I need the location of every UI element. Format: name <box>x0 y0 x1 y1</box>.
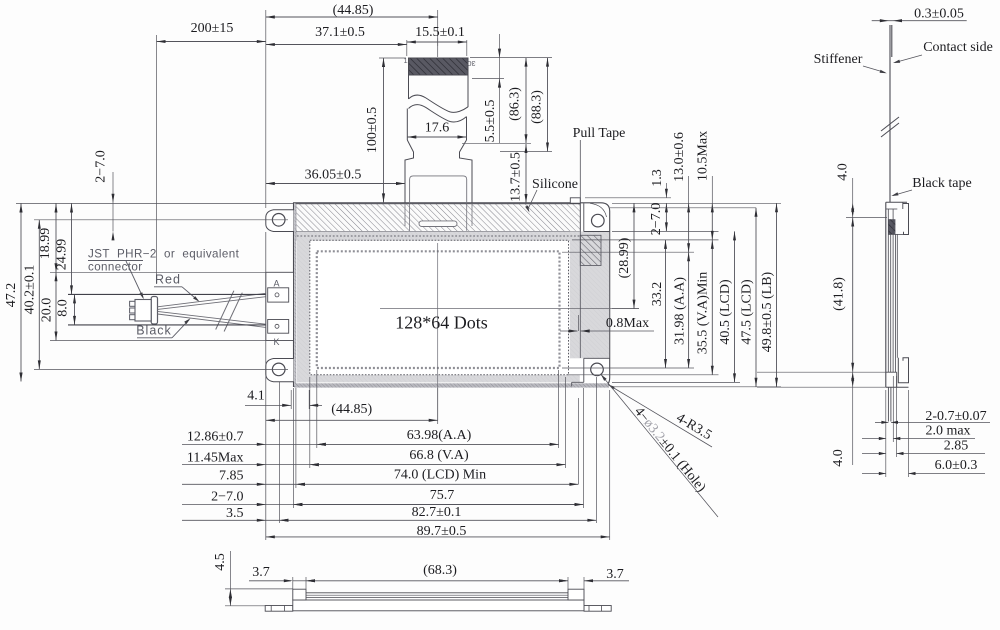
pull tape tab above top edge <box>570 198 580 203</box>
svg-text:(44.85): (44.85) <box>333 3 374 18</box>
ext module top edge to left <box>16 202 293 204</box>
bottom PCB edge hatched strip <box>294 383 609 387</box>
svg-text:10.5Max: 10.5Max <box>696 131 711 181</box>
svg-text:74.0 (LCD) Min: 74.0 (LCD) Min <box>394 468 486 483</box>
ext line PCB left edge (top) <box>265 10 267 208</box>
svg-text:(44.85): (44.85) <box>331 402 372 417</box>
svg-text:31.98 (A.A): 31.98 (A.A) <box>673 277 688 345</box>
svg-text:Silicone: Silicone <box>532 177 578 192</box>
ext LCD bottom right <box>612 381 740 383</box>
svg-text:K: K <box>273 337 279 347</box>
ext VA left (bottom) <box>309 377 311 468</box>
svg-text:(28.99): (28.99) <box>617 237 632 278</box>
side FPC tail below <box>887 387 889 421</box>
svg-text:18.99: 18.99 <box>38 228 53 260</box>
side glass stack lines <box>887 209 889 372</box>
ext tab A / K centers <box>68 293 266 295</box>
display centerline vertical <box>437 243 439 420</box>
mounting ear top-left <box>266 210 294 232</box>
svg-text:0.8Max: 0.8Max <box>606 316 649 331</box>
svg-text:13.7±0.5: 13.7±0.5 <box>509 152 524 202</box>
bottom view right cap <box>568 589 584 600</box>
svg-text:Black tape: Black tape <box>912 176 971 191</box>
display centerline horizontal <box>380 308 639 310</box>
side hatched tape block <box>888 219 895 234</box>
svg-text:8.0: 8.0 <box>56 299 71 317</box>
svg-text:2.85: 2.85 <box>944 439 969 454</box>
ext PCB right (bottom) <box>609 390 611 540</box>
ext FPC conn corners <box>406 40 408 56</box>
svg-text:35.5 (V.A)Min: 35.5 (V.A)Min <box>696 272 711 355</box>
svg-text:A: A <box>273 279 279 289</box>
notch bottom-right <box>572 382 584 386</box>
svg-text:3.7: 3.7 <box>252 565 270 580</box>
FPC connector end (stiffener) <box>409 58 469 75</box>
svg-text:47.2: 47.2 <box>4 283 19 308</box>
svg-text:24.99: 24.99 <box>55 239 70 271</box>
side FPC break symbol <box>881 117 899 131</box>
svg-text:17.6: 17.6 <box>425 121 450 136</box>
svg-text:JST PHR−2 or equivalent: JST PHR−2 or equivalent <box>88 248 240 261</box>
svg-text:4.1: 4.1 <box>247 389 265 404</box>
mounting hole top-right <box>592 214 605 227</box>
svg-text:6.0±0.3: 6.0±0.3 <box>935 458 978 473</box>
svg-text:49.8±0.5 (LB): 49.8±0.5 (LB) <box>760 271 775 352</box>
ext AA left (bottom) <box>316 370 318 448</box>
bottom view ext stubs <box>292 577 294 589</box>
svg-text:66.8 (V.A): 66.8 (V.A) <box>409 448 469 463</box>
pull tape hatched square <box>580 235 601 265</box>
svg-text:3.7: 3.7 <box>606 567 624 582</box>
bezel opening / V.A. dotted border <box>310 240 569 374</box>
ext silicone bottom right <box>612 230 719 232</box>
svg-text:40.5 (LCD): 40.5 (LCD) <box>718 279 733 345</box>
bottom view glass lines <box>306 592 568 594</box>
svg-text:20.0: 20.0 <box>40 298 55 323</box>
svg-text:(68.3): (68.3) <box>423 563 457 578</box>
svg-text:Black: Black <box>136 324 172 338</box>
svg-text:connector: connector <box>88 261 143 274</box>
side bottom ext verticals <box>885 390 887 477</box>
ext pull tape top <box>585 197 671 199</box>
side view module profile <box>885 202 887 387</box>
mounting hole top-left <box>272 214 285 227</box>
metal bezel top band <box>297 232 581 241</box>
ext module bottom right <box>612 386 781 388</box>
svg-text:7.85: 7.85 <box>219 468 244 483</box>
svg-text:4.0: 4.0 <box>836 163 851 181</box>
svg-text:12.86±0.7: 12.86±0.7 <box>187 429 244 444</box>
metal bezel bottom band <box>297 375 580 383</box>
svg-text:1: 1 <box>404 56 408 65</box>
A.A. dotted border <box>317 251 560 368</box>
svg-text:37.1±0.5: 37.1±0.5 <box>315 25 365 40</box>
ext 75.7 right (bottom) <box>583 388 585 508</box>
FPC body lower sides <box>406 109 408 141</box>
svg-text:30: 30 <box>467 59 475 68</box>
connector teeth <box>130 301 135 306</box>
ext hole center right (bottom) <box>595 377 597 523</box>
FPC wavy break <box>409 95 469 112</box>
ext LCD left (bottom) <box>295 388 297 488</box>
svg-text:75.7: 75.7 <box>430 488 455 503</box>
metal bezel left band <box>297 236 310 375</box>
bezel outer edge dotted line <box>297 235 581 237</box>
mounting ear bottom-left <box>266 359 294 382</box>
svg-text:100±0.5: 100±0.5 <box>365 107 380 153</box>
FPC lines inside silicone strip <box>409 204 411 231</box>
svg-text:4.0: 4.0 <box>831 449 846 467</box>
ext tab block top/bottom <box>50 271 266 273</box>
ext hole centers left <box>34 219 288 221</box>
tab K <box>268 320 289 334</box>
PCB gray band right of display <box>570 232 609 359</box>
bottom view left cap <box>293 589 306 600</box>
corner fillet line top-right <box>590 203 607 217</box>
bottom view main slab <box>293 600 584 611</box>
svg-text:(41.8): (41.8) <box>832 277 847 311</box>
side bottom flange <box>898 358 908 383</box>
LCD module PCB outline (front view) <box>294 203 610 387</box>
ext FPC center (bottom) <box>437 388 439 424</box>
wire black (to tab K) <box>158 311 266 324</box>
ext FPC centerline top <box>437 10 439 57</box>
svg-text:(88.3): (88.3) <box>530 90 545 124</box>
bottom view right flange <box>584 606 611 612</box>
tab A <box>268 288 289 302</box>
svg-text:63.98(A.A): 63.98(A.A) <box>407 428 472 443</box>
svg-text:13.0±0.6: 13.0±0.6 <box>672 132 687 182</box>
ext center right <box>612 308 639 310</box>
svg-text:Pull Tape: Pull Tape <box>573 126 626 141</box>
svg-text:1.3: 1.3 <box>650 169 665 187</box>
svg-text:3.5: 3.5 <box>226 506 244 521</box>
ext connector right edge <box>156 35 158 284</box>
FPC neck taper <box>405 140 472 203</box>
svg-text:33.2: 33.2 <box>650 282 665 307</box>
side view FPC vertical <box>889 25 891 202</box>
JST connector body <box>151 297 157 325</box>
ext side bottom lines to left <box>757 371 886 373</box>
svg-text:2−7.0: 2−7.0 <box>94 150 109 182</box>
ext VA top right <box>572 239 719 241</box>
silicone hatched top strip <box>296 204 581 232</box>
svg-text:2-0.7±0.07: 2-0.7±0.07 <box>925 409 986 424</box>
svg-text:47.5 (LCD): 47.5 (LCD) <box>740 279 755 345</box>
ext module left (bottom) <box>292 388 294 508</box>
svg-text:36.05±0.5: 36.05±0.5 <box>305 168 362 183</box>
svg-text:5.5±0.5: 5.5±0.5 <box>483 100 498 143</box>
ext hole center left (bottom) <box>278 382 280 523</box>
svg-text:82.7±0.1: 82.7±0.1 <box>412 505 462 520</box>
ext module top to right <box>612 202 781 204</box>
connector tab block outline <box>266 272 294 340</box>
FPC body upper sides <box>408 75 410 99</box>
svg-text:15.5±0.1: 15.5±0.1 <box>415 25 465 40</box>
svg-text:Red: Red <box>155 273 181 287</box>
side bottom cap <box>886 371 897 373</box>
mounting hole bottom-right <box>591 363 604 376</box>
wire red (to tab A) <box>158 293 266 307</box>
mounting hole bottom-left <box>272 363 285 376</box>
ext AA top right <box>562 251 694 253</box>
ext AA right (bottom) <box>558 370 560 448</box>
ext VA bottom right <box>568 374 719 376</box>
svg-text:40.2±0.1: 40.2±0.1 <box>23 265 38 315</box>
svg-text:4.5: 4.5 <box>213 553 228 571</box>
wire break slashes <box>216 291 234 330</box>
svg-text:11.45Max: 11.45Max <box>187 451 244 466</box>
svg-text:Contact side: Contact side <box>923 40 993 55</box>
svg-text:2.0 max: 2.0 max <box>925 424 970 439</box>
svg-text:2−7.0: 2−7.0 <box>211 490 243 505</box>
ext AA bottom right <box>562 367 694 369</box>
FPC inner tongue <box>410 176 467 203</box>
left PCB edge hatched strip <box>294 204 296 386</box>
bottom view left flange <box>265 606 293 612</box>
bottom-right ear separation lines <box>583 358 585 382</box>
ext LCD right (bottom) <box>577 398 579 484</box>
svg-text:(86.3): (86.3) <box>508 87 523 121</box>
slot in silicone <box>419 221 457 227</box>
svg-text:128*64 Dots: 128*64 Dots <box>395 313 488 333</box>
svg-text:200±15: 200±15 <box>191 21 234 36</box>
top-right ear separation lines <box>583 203 585 231</box>
svg-text:Stiffener: Stiffener <box>814 52 863 67</box>
ext PCB left edge (bottom) <box>265 232 267 540</box>
svg-text:0.3±0.05: 0.3±0.05 <box>914 7 964 22</box>
ext VA right (bottom) <box>565 377 567 468</box>
